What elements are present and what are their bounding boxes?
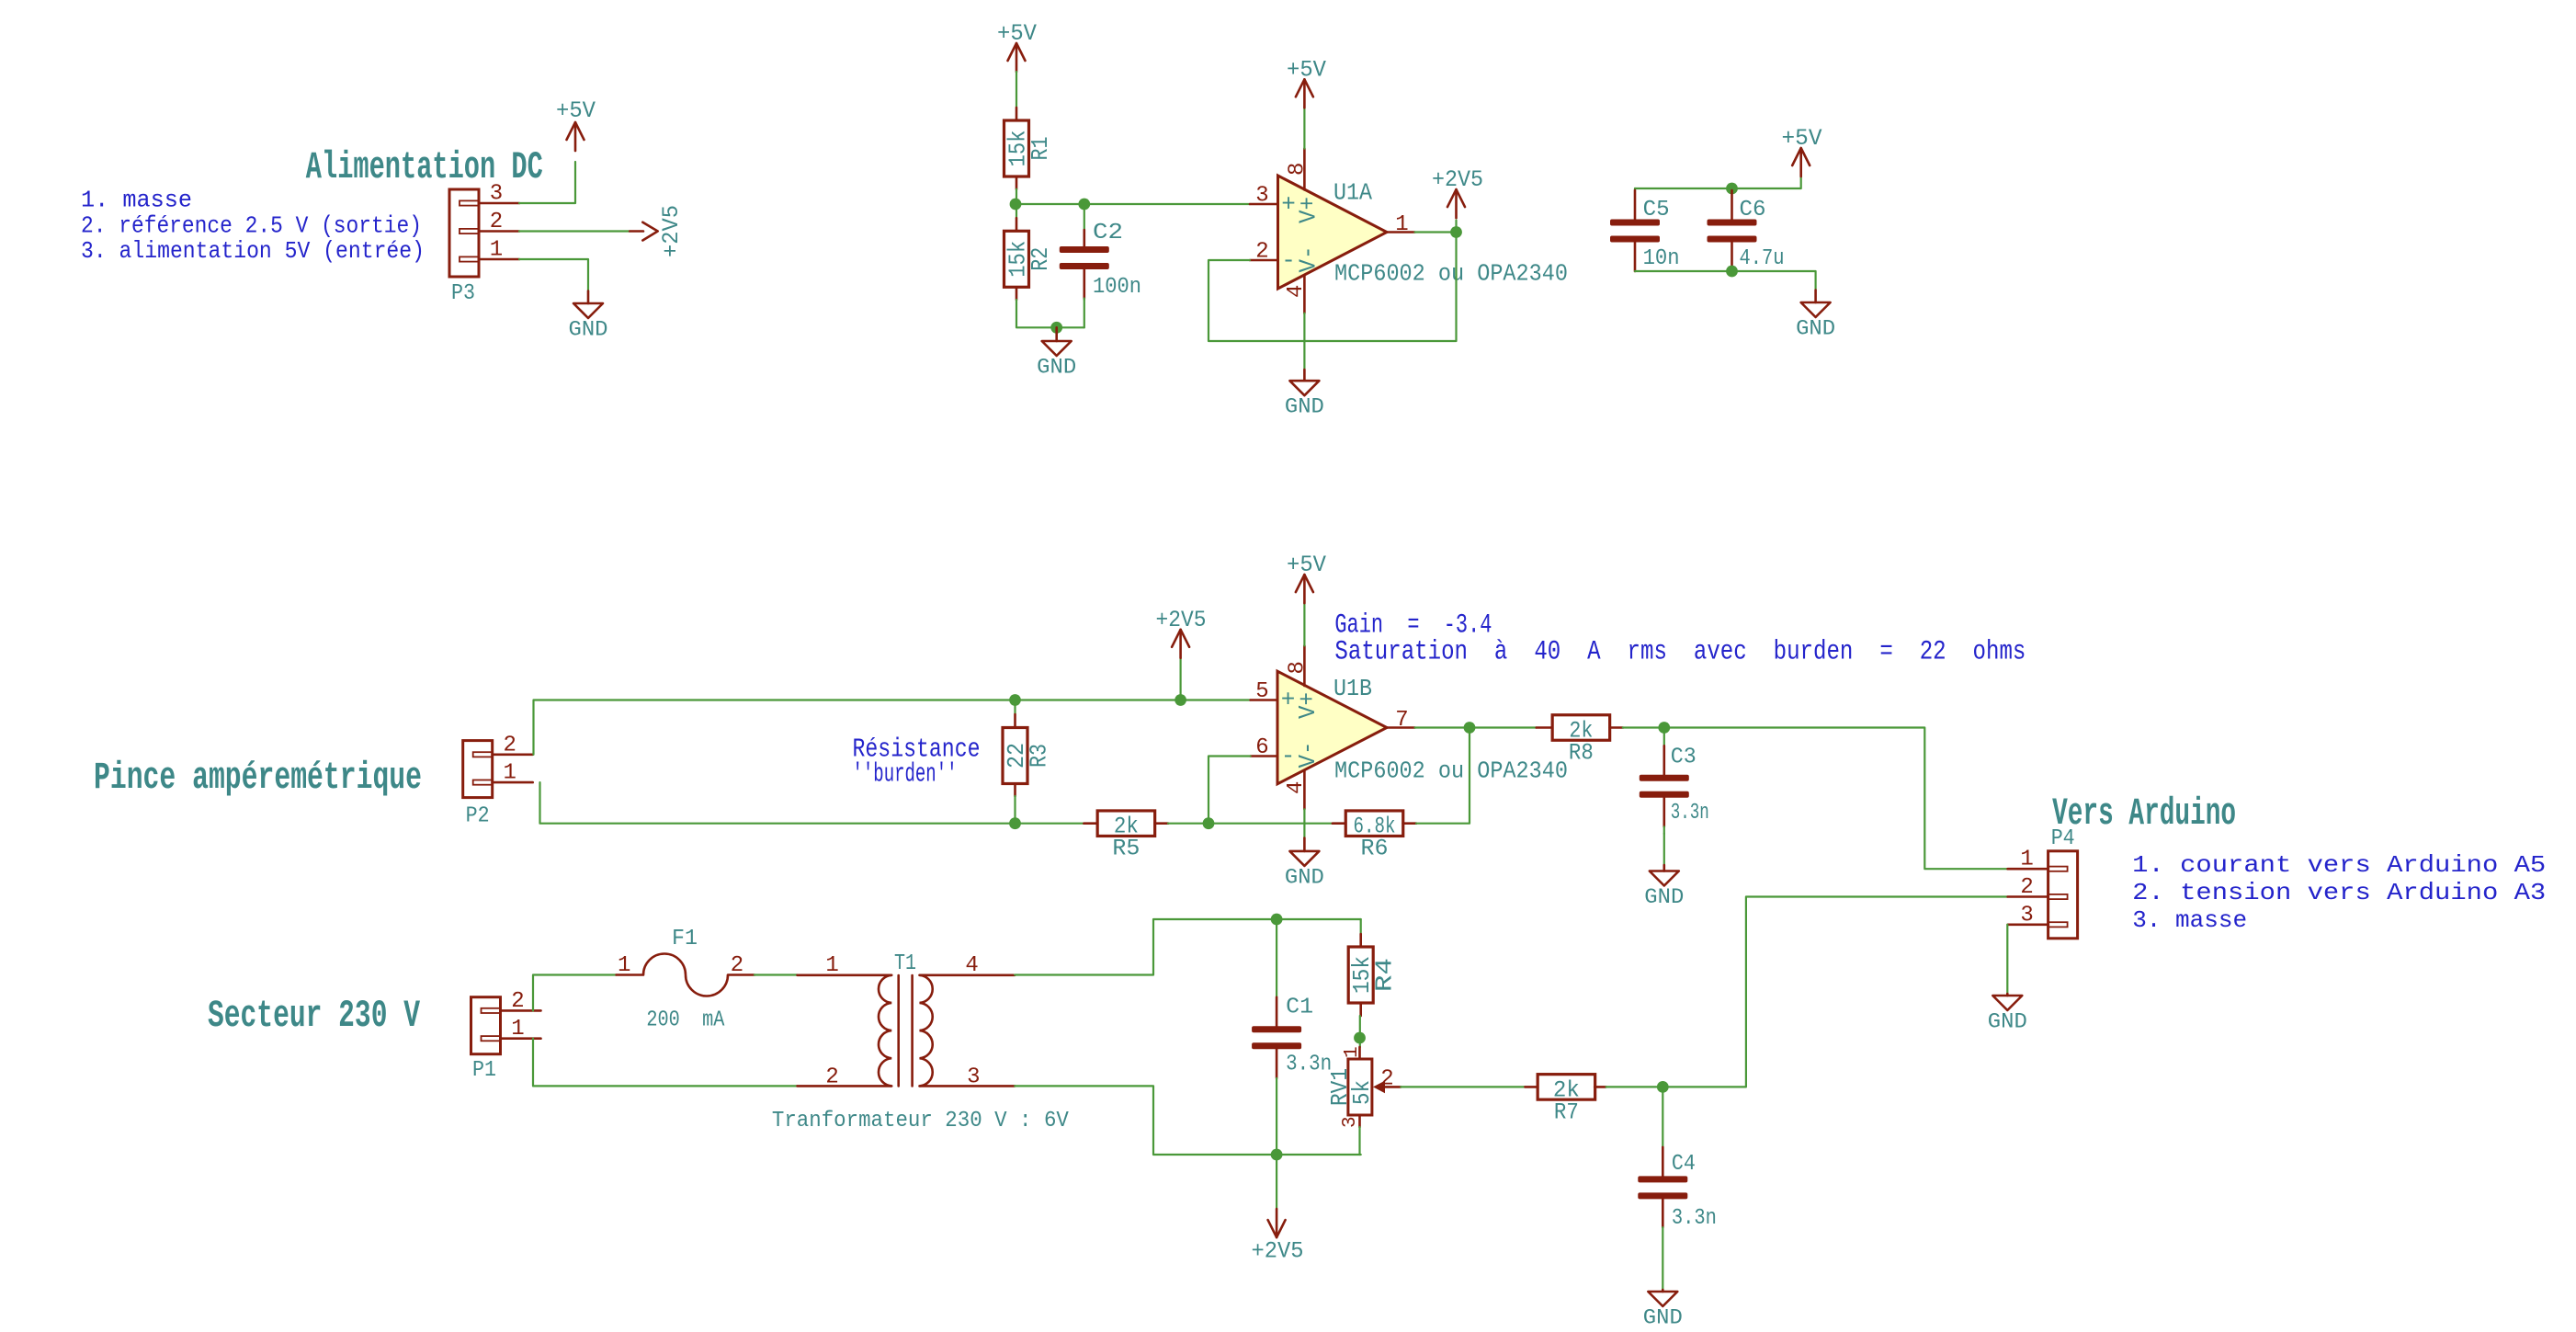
junction R3 top bbox=[1009, 694, 1021, 706]
svg-text:V-: V- bbox=[1294, 742, 1322, 768]
svg-text:8: 8 bbox=[1286, 661, 1311, 674]
wire C1 bottom to +2V5 bbox=[1276, 1155, 1277, 1209]
wire +2V5 stub (U1B) bbox=[1179, 658, 1181, 700]
junction C1 top bbox=[1271, 914, 1283, 926]
P3 pin 2 bbox=[460, 229, 479, 233]
svg-text:F1: F1 bbox=[672, 927, 698, 951]
resistor R2 body bbox=[1004, 231, 1029, 287]
power +5V (U1A pin8) bbox=[1287, 56, 1326, 108]
resistor R4 body bbox=[1348, 947, 1373, 1003]
junction C6 bottom bbox=[1726, 266, 1738, 278]
T1 primary winding and pins 1/2 bbox=[798, 974, 892, 977]
P4 pin 1 bbox=[2048, 867, 2068, 871]
wire R7 to C4 node bbox=[1606, 1086, 1663, 1087]
power arrow symbol bbox=[1016, 43, 1018, 72]
potentiometer RV1 bbox=[1326, 1046, 1401, 1128]
svg-text:2: 2 bbox=[731, 953, 743, 978]
svg-text:5k: 5k bbox=[1348, 1080, 1376, 1105]
connector P3 body bbox=[449, 189, 479, 277]
power arrow symbol bbox=[1303, 79, 1306, 108]
svg-text:GND: GND bbox=[1796, 317, 1835, 341]
resistor R1 bbox=[1004, 120, 1055, 176]
svg-text:3: 3 bbox=[1340, 1116, 1361, 1128]
ground triangle symbol bbox=[1303, 370, 1306, 381]
resistor R4 bbox=[1348, 947, 1399, 1003]
resistor R3 bbox=[1003, 728, 1053, 784]
pin lead R7 right bbox=[1594, 1086, 1606, 1088]
connector P2 bbox=[463, 733, 533, 828]
svg-text:1: 1 bbox=[503, 761, 516, 786]
svg-text:GND: GND bbox=[1037, 356, 1076, 380]
svg-text:3. masse: 3. masse bbox=[2132, 906, 2247, 934]
wire +5V to U1A pin8 bbox=[1303, 107, 1305, 149]
wire +5V to R1 bbox=[1016, 72, 1017, 108]
P2 pin 2 bbox=[473, 752, 493, 757]
wire P4 pin3 to GND bbox=[2006, 925, 2008, 994]
svg-text:-: - bbox=[1281, 247, 1296, 275]
ground (U1B pin4) bbox=[1285, 838, 1324, 890]
svg-text:P1: P1 bbox=[472, 1058, 496, 1083]
wire C4 node to P4 pin2 bbox=[1662, 897, 2007, 1087]
svg-text:R3: R3 bbox=[1026, 744, 1053, 768]
svg-text:V-: V- bbox=[1295, 246, 1322, 273]
wire U1B pin6 to R5/R6 node bbox=[1209, 757, 1251, 824]
svg-text:1. courant vers Arduino A5: 1. courant vers Arduino A5 bbox=[2132, 851, 2546, 879]
svg-text:4: 4 bbox=[1284, 781, 1309, 794]
svg-text:+2V5: +2V5 bbox=[1432, 166, 1483, 193]
wire top rail to R4 bbox=[1360, 919, 1362, 934]
wire C3 node to P4 pin1 bbox=[1664, 728, 2008, 870]
pin lead R2 bottom bbox=[1016, 287, 1018, 300]
power label +2V5 (P3, right arrow) bbox=[630, 205, 685, 257]
svg-text:3.3n: 3.3n bbox=[1672, 1206, 1717, 1231]
svg-text:1: 1 bbox=[1395, 212, 1408, 237]
wire P2 pin2 to U1B pin5 net bbox=[534, 700, 1251, 755]
junction R5/R6/pin6 bbox=[1203, 817, 1215, 829]
pin 8 U1A bbox=[1303, 149, 1306, 190]
svg-text:R8: R8 bbox=[1569, 740, 1594, 767]
wire R2 bottom to GND rail bbox=[1016, 300, 1084, 327]
power +5V (P3) bbox=[556, 97, 596, 151]
power +5V (R1) bbox=[997, 20, 1037, 72]
wire C5/C6 top rail to +5V bbox=[1635, 176, 1801, 188]
P3 pin 1 bbox=[460, 256, 479, 261]
pin lead R3 top bbox=[1014, 700, 1016, 715]
wire +5V to U1B pin8 bbox=[1303, 603, 1305, 646]
svg-text:V+: V+ bbox=[1295, 197, 1322, 223]
wire fuse to T1 pin1 bbox=[755, 973, 798, 975]
junction R3 bottom bbox=[1009, 817, 1021, 829]
wire R5 to node bbox=[1168, 823, 1209, 825]
wire R8 to C3 node bbox=[1623, 726, 1664, 728]
svg-text:4: 4 bbox=[1284, 285, 1309, 298]
svg-text:V+: V+ bbox=[1294, 692, 1322, 719]
wire RV1 pin3 to bottom rail bbox=[1358, 1127, 1360, 1155]
capacitor C3 plates and leads bbox=[1663, 728, 1665, 746]
wire U1A pin4 to GND bbox=[1303, 313, 1305, 370]
pin 4 U1A bbox=[1303, 276, 1306, 313]
wire node to R6 bbox=[1209, 823, 1333, 825]
junction C2 top bbox=[1078, 199, 1090, 211]
power +2V5 (bottom) bbox=[1252, 1209, 1304, 1265]
svg-text:GND: GND bbox=[569, 318, 608, 342]
svg-text:R5: R5 bbox=[1112, 836, 1140, 862]
connector P4 body bbox=[2048, 851, 2078, 939]
ground (U1A pin4) bbox=[1285, 370, 1324, 419]
wire T1 pin3 to bottom rail bbox=[1015, 1086, 1361, 1155]
ground triangle symbol bbox=[1814, 290, 1817, 302]
svg-text:P3: P3 bbox=[451, 281, 475, 306]
wire U1B output node bbox=[1415, 726, 1470, 728]
svg-text:2: 2 bbox=[2020, 875, 2033, 900]
junction U1B output bbox=[1464, 722, 1476, 734]
svg-text:C2: C2 bbox=[1093, 221, 1123, 245]
wire U1B pin4 to GND bbox=[1303, 809, 1305, 837]
wire P1 pin2 to fuse bbox=[533, 975, 617, 1011]
wire output node up bbox=[1455, 221, 1457, 233]
op-amp U1A triangle body bbox=[1278, 176, 1388, 289]
svg-text:1: 1 bbox=[618, 953, 630, 978]
pin lead R1 top bbox=[1016, 108, 1018, 120]
power arrow symbol bbox=[1179, 630, 1182, 658]
svg-text:6: 6 bbox=[1255, 735, 1268, 760]
svg-text:1. masse: 1. masse bbox=[81, 187, 192, 214]
svg-text:Saturation à 40 A rms ave: Saturation à 40 A rms avec burden = 22 o… bbox=[1334, 637, 2026, 668]
svg-text:+: + bbox=[1281, 191, 1296, 219]
capacitor C5 plates and leads bbox=[1634, 188, 1636, 190]
svg-text:+2V5: +2V5 bbox=[1252, 1238, 1304, 1265]
svg-text:3.3n: 3.3n bbox=[1671, 801, 1709, 825]
svg-text:Vers Arduino: Vers Arduino bbox=[2052, 791, 2236, 836]
ground triangle symbol bbox=[1662, 1290, 1664, 1292]
svg-text:8: 8 bbox=[1286, 163, 1311, 176]
wire C4 bottom to GND bbox=[1662, 1227, 1663, 1290]
pin lead R8 right bbox=[1610, 726, 1623, 729]
svg-text:200 mA: 200 mA bbox=[646, 1008, 724, 1033]
pin lead R4 top bbox=[1359, 934, 1362, 947]
svg-text:2: 2 bbox=[490, 210, 503, 234]
junction C1 bottom bbox=[1271, 1149, 1283, 1161]
svg-text:1: 1 bbox=[511, 1017, 524, 1042]
pin lead R5 left bbox=[1084, 822, 1097, 825]
op-amp U1B triangle body bbox=[1277, 671, 1387, 784]
wire RV1 wiper to R7 bbox=[1401, 1086, 1525, 1087]
T1 core bbox=[897, 975, 900, 1086]
pin 2 U1A bbox=[1250, 259, 1278, 262]
capacitor C6 plates and leads bbox=[1731, 188, 1732, 190]
resistor R6 body bbox=[1345, 811, 1403, 837]
fuse F1 body (S-curve) bbox=[617, 973, 643, 976]
wire P3 pin3 to +5V bbox=[519, 162, 575, 203]
svg-text:C4: C4 bbox=[1672, 1152, 1696, 1177]
pin 3 U1A bbox=[1250, 203, 1278, 206]
capacitor C4 plates and leads bbox=[1662, 1087, 1663, 1147]
svg-text:GND: GND bbox=[1285, 395, 1324, 419]
svg-text:R1: R1 bbox=[1027, 137, 1054, 161]
svg-text:P4: P4 bbox=[2051, 826, 2075, 851]
wire output to R8 bbox=[1470, 726, 1537, 728]
svg-text:C6: C6 bbox=[1740, 198, 1766, 222]
svg-text:Pince ampéremétrique: Pince ampéremétrique bbox=[94, 756, 422, 800]
power +2V5 (U1B pin5) bbox=[1156, 607, 1207, 658]
svg-text:+2V5: +2V5 bbox=[1156, 607, 1207, 633]
wire node to C2 top bbox=[1084, 204, 1085, 230]
svg-text:7: 7 bbox=[1395, 708, 1408, 733]
wire U1A feedback pin2 to output bbox=[1209, 233, 1457, 342]
P3 pin 3 bbox=[460, 200, 479, 205]
connector P1 bbox=[471, 989, 541, 1083]
svg-text:+5V: +5V bbox=[1782, 125, 1822, 152]
junction C3 tap bbox=[1658, 722, 1670, 734]
ground (C5/C6) bbox=[1796, 290, 1835, 341]
ground triangle symbol bbox=[1055, 327, 1058, 341]
pin 6 U1B bbox=[1251, 755, 1277, 757]
capacitor C4 bbox=[1638, 1087, 1717, 1231]
svg-text:2: 2 bbox=[1255, 240, 1268, 265]
power arrow symbol bbox=[1303, 575, 1306, 603]
svg-text:GND: GND bbox=[1643, 1306, 1683, 1328]
resistor R1 body bbox=[1004, 120, 1029, 176]
svg-text:2: 2 bbox=[1380, 1067, 1393, 1092]
ground (C4) bbox=[1643, 1290, 1683, 1330]
resistor R5 bbox=[1097, 811, 1155, 862]
svg-text:+5V: +5V bbox=[1287, 552, 1326, 578]
svg-text:C3: C3 bbox=[1671, 745, 1697, 769]
wire R5 left bbox=[1016, 823, 1084, 825]
svg-text:R2: R2 bbox=[1027, 247, 1054, 271]
connector P1 body bbox=[471, 997, 501, 1054]
wire R4 to RV1 bbox=[1359, 1016, 1361, 1047]
svg-text:4: 4 bbox=[965, 953, 978, 978]
junction GND tap bbox=[1050, 322, 1062, 334]
svg-text:GND: GND bbox=[1988, 1010, 2027, 1034]
svg-text:U1A: U1A bbox=[1333, 179, 1372, 207]
svg-text:C1: C1 bbox=[1286, 996, 1313, 1020]
pin lead R6 right bbox=[1403, 822, 1416, 825]
svg-text:3: 3 bbox=[1255, 184, 1268, 209]
svg-text:5: 5 bbox=[1255, 679, 1268, 704]
ground (R2/C2) bbox=[1037, 327, 1076, 379]
fuse F1 bbox=[617, 927, 755, 1033]
svg-text:4.7u: 4.7u bbox=[1740, 246, 1785, 271]
svg-text:+5V: +5V bbox=[997, 20, 1037, 47]
svg-text:''burden'': ''burden'' bbox=[853, 759, 958, 790]
svg-text:2: 2 bbox=[503, 733, 516, 757]
connector P2 body bbox=[463, 741, 493, 798]
RV1 wiper arrow bbox=[1373, 1081, 1385, 1094]
svg-text:2. tension vers Arduino A3: 2. tension vers Arduino A3 bbox=[2132, 879, 2546, 906]
junction R4/RV1 bbox=[1354, 1032, 1366, 1044]
svg-text:+: + bbox=[1281, 687, 1296, 714]
svg-text:+2V5: +2V5 bbox=[658, 205, 685, 257]
svg-text:R4: R4 bbox=[1371, 958, 1399, 992]
svg-text:T1: T1 bbox=[894, 951, 916, 976]
svg-text:3: 3 bbox=[2020, 903, 2033, 928]
svg-text:Secteur 230 V: Secteur 230 V bbox=[208, 994, 421, 1038]
wire C2 bottom bbox=[1084, 300, 1085, 327]
power arrow symbol bbox=[1455, 189, 1458, 218]
pin 8 U1B bbox=[1303, 645, 1306, 686]
svg-text:3. alimentation 5V (entrée): 3. alimentation 5V (entrée) bbox=[81, 237, 425, 265]
transformer T1 bbox=[798, 951, 1016, 1090]
capacitor C2 bbox=[1060, 221, 1141, 300]
svg-text:+5V: +5V bbox=[556, 97, 596, 124]
P1 pin 1 bbox=[482, 1036, 501, 1041]
resistor R3 body bbox=[1003, 728, 1027, 784]
svg-text:100n: 100n bbox=[1093, 275, 1141, 300]
pin 4 U1B bbox=[1303, 771, 1306, 809]
svg-text:C5: C5 bbox=[1643, 198, 1670, 222]
svg-text:3.3n: 3.3n bbox=[1286, 1052, 1332, 1076]
wire U1A output to +2V5 bbox=[1415, 231, 1457, 233]
capacitor C1 plates and leads bbox=[1276, 919, 1277, 997]
svg-text:3: 3 bbox=[967, 1065, 980, 1090]
pin lead R6 left bbox=[1333, 822, 1345, 825]
pin lead R2 top bbox=[1016, 218, 1018, 231]
connector P3 bbox=[449, 182, 519, 307]
resistor R5 body bbox=[1097, 811, 1155, 837]
pin lead R7 left bbox=[1525, 1086, 1538, 1088]
svg-text:2: 2 bbox=[825, 1065, 838, 1090]
wire T1 pin4 to top rail bbox=[1015, 919, 1361, 975]
wire node to U1A pin3 bbox=[1016, 203, 1250, 205]
power +5V (C5/C6) bbox=[1782, 125, 1822, 176]
wire P3 pin2 to +2V5 label bbox=[519, 230, 630, 232]
junction U1A output node bbox=[1450, 226, 1462, 238]
P4 pin 2 bbox=[2048, 894, 2068, 899]
svg-text:R6: R6 bbox=[1361, 836, 1389, 862]
wire C5/C6 bottom rail to GND bbox=[1635, 271, 1816, 290]
svg-text:MCP6002 ou OPA2340: MCP6002 ou OPA2340 bbox=[1334, 757, 1568, 784]
power arrow symbol bbox=[1799, 148, 1802, 176]
power +5V (U1B pin8) bbox=[1287, 552, 1326, 603]
wire R6 to output node bbox=[1416, 728, 1470, 824]
op-amp U1A bbox=[1278, 176, 1388, 289]
pin lead R5 right bbox=[1155, 822, 1169, 825]
P4 pin 3 bbox=[2048, 922, 2068, 927]
pin 5 U1B bbox=[1251, 699, 1277, 701]
power arrow symbol (right) bbox=[630, 230, 643, 233]
svg-text:1: 1 bbox=[490, 238, 503, 263]
op-amp U1B bbox=[1277, 671, 1387, 784]
P2 pin 1 bbox=[473, 780, 493, 785]
junction C4 tap bbox=[1657, 1081, 1669, 1093]
svg-text:GND: GND bbox=[1285, 865, 1324, 889]
svg-text:MCP6002 ou OPA2340: MCP6002 ou OPA2340 bbox=[1334, 260, 1568, 288]
P1 pin 2 bbox=[482, 1008, 501, 1013]
wire R1-R2 node bbox=[1016, 189, 1017, 219]
power arrow symbol (down) bbox=[1276, 1209, 1278, 1237]
svg-text:3: 3 bbox=[490, 182, 503, 207]
resistor R8 bbox=[1552, 715, 1610, 767]
pin lead R1 bottom bbox=[1016, 176, 1018, 189]
svg-text:1: 1 bbox=[2020, 848, 2033, 872]
svg-text:GND: GND bbox=[1644, 885, 1684, 909]
svg-text:-: - bbox=[1281, 743, 1296, 770]
pin lead R3 bottom bbox=[1014, 784, 1016, 797]
junction C6 top bbox=[1726, 183, 1738, 195]
resistor R2 bbox=[1004, 231, 1055, 287]
resistor R7 body bbox=[1538, 1075, 1595, 1100]
capacitor C2 plates and leads bbox=[1084, 230, 1086, 246]
svg-text:1: 1 bbox=[825, 953, 838, 978]
svg-text:+5V: +5V bbox=[1287, 56, 1326, 83]
svg-text:R7: R7 bbox=[1554, 1099, 1579, 1125]
svg-text:2: 2 bbox=[511, 989, 524, 1014]
pin 1 U1A output bbox=[1387, 231, 1415, 233]
T1 secondary winding and pins 4/3 bbox=[920, 975, 933, 1087]
svg-text:2. référence 2.5 V (sortie): 2. référence 2.5 V (sortie) bbox=[81, 211, 422, 239]
pin lead R4 bottom bbox=[1359, 1003, 1362, 1016]
svg-text:P2: P2 bbox=[466, 804, 490, 829]
svg-text:Alimentation DC: Alimentation DC bbox=[306, 145, 543, 189]
wire P2 pin1 to burden net bbox=[540, 782, 1016, 824]
ground (P3) bbox=[569, 291, 608, 342]
ground (P4) bbox=[1988, 994, 2027, 1034]
svg-text:U1B: U1B bbox=[1333, 675, 1372, 702]
power arrow symbol bbox=[574, 122, 577, 151]
ground (C3) bbox=[1644, 865, 1684, 909]
svg-text:1: 1 bbox=[1342, 1046, 1363, 1058]
ground triangle symbol bbox=[1663, 865, 1666, 871]
capacitor C3 bbox=[1640, 728, 1709, 834]
ground triangle symbol bbox=[1303, 838, 1306, 851]
svg-text:10n: 10n bbox=[1643, 246, 1680, 271]
capacitor C5 bbox=[1610, 188, 1680, 271]
capacitor C1 bbox=[1252, 919, 1332, 1155]
pin lead R8 left bbox=[1537, 726, 1553, 729]
connector P4 bbox=[2008, 826, 2078, 939]
ground triangle symbol bbox=[2006, 994, 2009, 996]
RV1 body and pins bbox=[1358, 1047, 1361, 1059]
power +2V5 (U1A out) bbox=[1432, 166, 1483, 218]
capacitor C6 bbox=[1708, 188, 1785, 271]
pin 7 U1B output bbox=[1387, 726, 1415, 729]
resistor R7 bbox=[1538, 1075, 1595, 1126]
resistor R6 bbox=[1345, 811, 1403, 862]
resistor R8 body bbox=[1552, 715, 1610, 741]
wire P1 pin1 to T1 pin2 bbox=[533, 1039, 798, 1087]
wire C3 bottom to GND bbox=[1663, 834, 1665, 865]
junction +2V5 tap (U1B) bbox=[1175, 694, 1186, 706]
wire P3 pin1 to GND bbox=[519, 259, 588, 291]
ground triangle symbol bbox=[587, 291, 590, 303]
svg-text:Tranformateur 230 V : 6V: Tranformateur 230 V : 6V bbox=[772, 1109, 1070, 1133]
junction node R1/R2/U1A pin3 bbox=[1010, 199, 1022, 211]
